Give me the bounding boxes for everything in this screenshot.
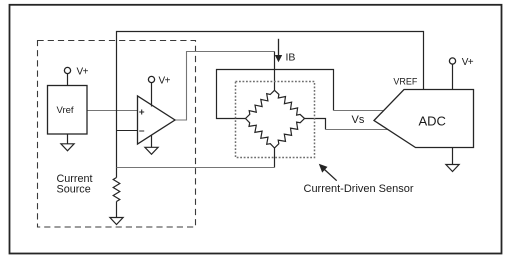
ground (sense resistor) [110, 202, 123, 225]
ADC [374, 90, 474, 148]
wire op-amp inverting input to feedback node [117, 130, 138, 132]
bridge resistor top-right [275, 90, 305, 118]
svg-text:VREF: VREF [393, 77, 418, 87]
current-driven sensor dotted box [236, 82, 315, 158]
svg-text:IB: IB [286, 52, 296, 64]
bridge resistor top-left [246, 90, 275, 118]
ground (Vref) [61, 134, 74, 151]
V+ terminal (op-amp) [148, 76, 170, 107]
label Current Source [57, 173, 93, 196]
svg-text:ADC: ADC [419, 114, 446, 129]
svg-text:Vref: Vref [57, 105, 74, 116]
wire Vref output to op-amp noninverting input [87, 110, 138, 112]
svg-text:Source: Source [57, 184, 91, 196]
svg-text:V+: V+ [462, 57, 474, 68]
svg-text:Current-Driven Sensor: Current-Driven Sensor [304, 183, 414, 195]
voltage reference Vref [48, 86, 88, 135]
bridge resistor bottom-left [246, 119, 275, 149]
wire feedback node: sense resistor top to ADC VREF pin (top net) [117, 32, 424, 178]
wire bridge bottom vertex to sense resistor [274, 148, 276, 168]
wire bridge left vertex to ADC Vs+ input (around top) [217, 70, 334, 119]
V+ terminal (ADC) [449, 57, 473, 90]
bridge resistor bottom-right [275, 119, 305, 149]
current source dashed box [38, 41, 196, 228]
ground (op-amp) [145, 135, 158, 154]
op-amp [138, 96, 176, 144]
sense resistor [113, 178, 120, 202]
wire op-amp output to bridge top vertex [175, 52, 275, 121]
annotation arrow to sensor box [319, 164, 337, 181]
wire bridge right vertex to ADC Vs- input [305, 119, 326, 130]
V+ terminal (Vref) [64, 67, 88, 86]
current arrow IB [275, 39, 296, 64]
ground (ADC) [446, 148, 459, 172]
svg-text:V+: V+ [77, 67, 89, 78]
svg-text:Vs: Vs [352, 114, 365, 126]
svg-text:V+: V+ [159, 76, 171, 87]
